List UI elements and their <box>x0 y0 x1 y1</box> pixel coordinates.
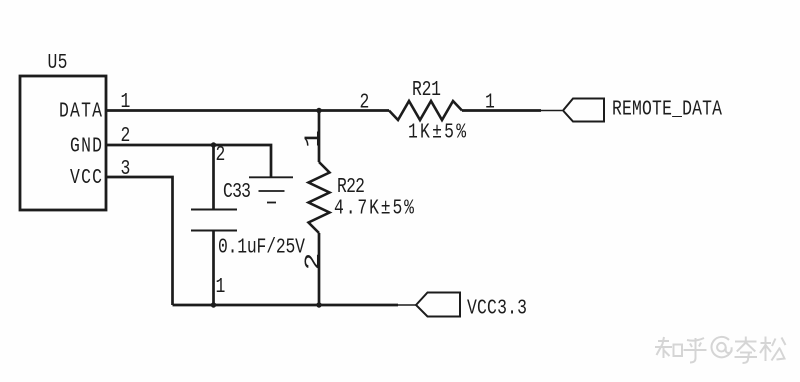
svg-text:2: 2 <box>216 142 226 167</box>
svg-text:0.1uF/25V: 0.1uF/25V <box>218 235 306 260</box>
svg-text:1: 1 <box>121 89 131 114</box>
svg-text:GND: GND <box>70 134 102 159</box>
svg-text:1: 1 <box>301 130 325 148</box>
svg-text:VCC: VCC <box>70 165 102 190</box>
svg-text:4.7K±5%: 4.7K±5% <box>334 196 415 221</box>
svg-text:DATA: DATA <box>59 99 103 124</box>
svg-text:2: 2 <box>301 253 325 271</box>
svg-text:1: 1 <box>485 90 495 115</box>
svg-text:1K±5%: 1K±5% <box>408 120 467 145</box>
svg-text:U5: U5 <box>48 50 68 75</box>
svg-text:1: 1 <box>216 274 226 299</box>
svg-text:REMOTE_DATA: REMOTE_DATA <box>612 97 723 122</box>
svg-text:R21: R21 <box>412 77 441 102</box>
svg-text:2: 2 <box>360 90 370 115</box>
svg-text:VCC3.3: VCC3.3 <box>467 296 527 321</box>
svg-text:C33: C33 <box>223 179 251 204</box>
svg-text:3: 3 <box>121 156 131 181</box>
svg-text:2: 2 <box>121 123 131 148</box>
